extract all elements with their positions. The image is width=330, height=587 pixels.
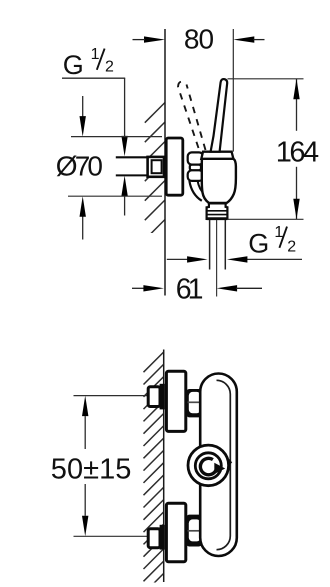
knob rotation arrow glyph xyxy=(200,458,216,474)
lower escutcheon (front view) xyxy=(166,503,185,562)
dim 50+-15 top extension / centerline xyxy=(74,395,165,397)
lower union flange xyxy=(160,525,165,550)
knob outer circle xyxy=(188,445,229,486)
upper union flange xyxy=(160,384,165,410)
lower connector block with holes xyxy=(186,515,201,547)
wall hatching (front view) xyxy=(144,352,164,587)
svg-text:G: G xyxy=(63,50,84,80)
dim 164 extension lines xyxy=(228,78,304,80)
svg-text:2: 2 xyxy=(287,239,296,256)
lower union nut (front view) xyxy=(148,529,160,548)
label G 1/2 (top left) xyxy=(63,46,114,80)
union nut square on wall xyxy=(148,157,164,177)
knob inner circle xyxy=(195,453,221,479)
wall line (side view, also left extension of dim 80) xyxy=(164,29,166,296)
svg-text:61: 61 xyxy=(176,274,204,306)
knob pointer tab xyxy=(228,458,232,467)
dim O70 bottom extension line xyxy=(68,195,162,197)
mixer body capsule (front view) xyxy=(200,374,237,557)
svg-text:G: G xyxy=(248,229,269,259)
inlet pipe stub through wall xyxy=(116,157,148,175)
leader drop to inlet pipe with down arrow xyxy=(124,78,126,137)
dim O70 up arrow xyxy=(82,216,84,240)
G 1/2 bottom leader line xyxy=(247,258,302,260)
G 1/2 bottom arrows pointing at pipe xyxy=(167,258,188,260)
capsule inner highlight line xyxy=(217,380,231,549)
dim 50+-15 bottom extension / centerline xyxy=(74,535,165,537)
dim O70 down arrow xyxy=(82,96,84,117)
svg-text:164: 164 xyxy=(276,136,319,168)
upper connector block with holes xyxy=(186,389,201,417)
outlet nut below body xyxy=(207,203,228,219)
label G 1/2 (bottom right) xyxy=(248,224,296,259)
extension line right of dim 80 xyxy=(232,29,234,152)
wall hatching (side view) xyxy=(145,103,165,260)
union bumps between escutcheon and body xyxy=(188,152,203,181)
svg-text:80: 80 xyxy=(184,24,214,55)
wall line (front view) xyxy=(163,350,165,583)
escutcheon (side view) xyxy=(166,138,183,195)
union nut inner square xyxy=(152,160,162,173)
body top band xyxy=(201,152,233,159)
upper escutcheon (front view) xyxy=(166,371,185,431)
svg-text:1: 1 xyxy=(91,46,100,63)
dim 164 line and arrows xyxy=(296,79,298,131)
lever handle dashed alternate position xyxy=(178,82,206,150)
mixer body (side view) xyxy=(202,159,236,203)
dimension 80 arrows and tails xyxy=(144,36,254,42)
upper union nut (front view) xyxy=(148,387,160,407)
lever handle solid xyxy=(211,79,228,152)
inlet up arrow under pipe xyxy=(124,196,126,216)
svg-text:50±15: 50±15 xyxy=(51,453,132,485)
svg-text:Ø70: Ø70 xyxy=(56,151,103,182)
dim O70 top extension line xyxy=(71,136,162,138)
union elbow tube to outlet xyxy=(189,181,201,201)
leader underline of G 1/2 top xyxy=(62,77,125,79)
svg-text:2: 2 xyxy=(105,59,114,76)
dim 61 arrows and text xyxy=(132,287,144,289)
outlet pipe centerline xyxy=(216,220,218,297)
outlet pipe walls below nut xyxy=(209,220,211,270)
dim 50+-15 line and arrows xyxy=(84,416,86,449)
